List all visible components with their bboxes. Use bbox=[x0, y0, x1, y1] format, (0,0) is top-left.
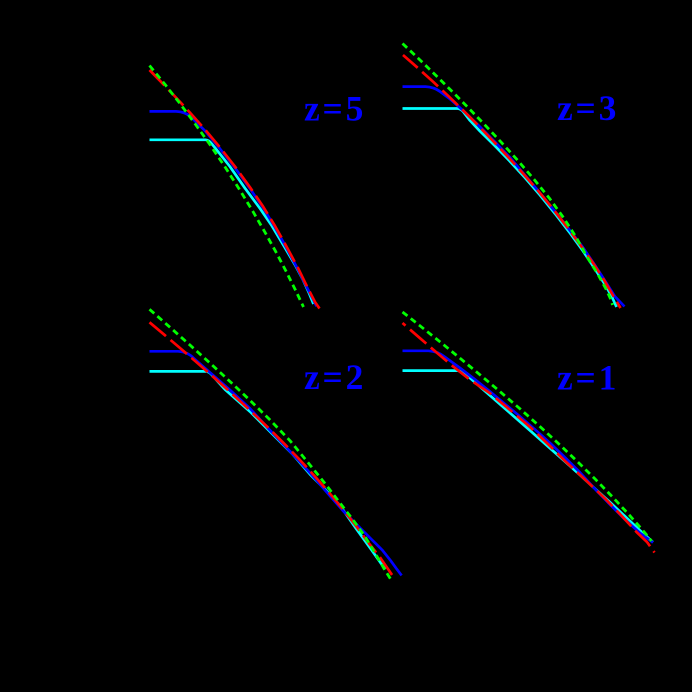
cyan solid curve z=2 bbox=[150, 371, 386, 569]
cyan solid curve z=5 bbox=[150, 140, 314, 304]
svg-text:z=3: z=3 bbox=[557, 88, 619, 128]
green dashed curve z=5 bbox=[150, 66, 304, 308]
red long-dashed curve z=3 bbox=[403, 55, 621, 308]
cyan solid curve z=1 bbox=[403, 371, 654, 543]
blue solid curve z=1 bbox=[403, 351, 654, 543]
blue solid curve z=2 bbox=[150, 351, 402, 575]
svg-text:z=5: z=5 bbox=[304, 89, 366, 129]
green dashed curve z=3 bbox=[403, 44, 613, 306]
svg-text:z=2: z=2 bbox=[304, 357, 366, 397]
svg-text:z=1: z=1 bbox=[557, 358, 619, 398]
blue solid curve z=5 bbox=[150, 111, 317, 306]
cyan solid curve z=3 bbox=[403, 109, 617, 308]
green dashed curve z=1 bbox=[403, 312, 652, 541]
blue solid curve z=3 bbox=[403, 87, 625, 307]
red long-dashed curve z=2 bbox=[150, 322, 395, 578]
red long-dashed curve z=5 bbox=[150, 70, 320, 309]
green dashed curve z=2 bbox=[150, 309, 391, 579]
red long-dashed curve z=1 bbox=[403, 323, 655, 553]
